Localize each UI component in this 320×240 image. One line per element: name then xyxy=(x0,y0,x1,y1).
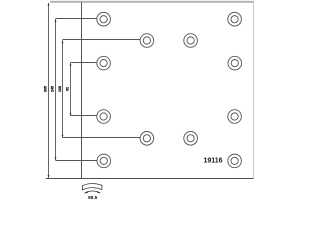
plate top edge (grey) xyxy=(50,1,254,3)
rivet hole H1 (row1 left) xyxy=(97,12,111,26)
extension line row5 (middle) xyxy=(63,137,141,139)
rivet hole H11 (row6 left) xyxy=(97,154,111,168)
extension line row1 xyxy=(56,18,97,20)
plate bottom edge xyxy=(46,178,254,180)
dimension arc arrowhead left xyxy=(84,191,88,193)
extension line row2 (middle) xyxy=(63,39,141,41)
extension line row4 xyxy=(71,115,97,117)
dimension line D3 (row2-row5) xyxy=(62,40,64,138)
rivet hole H3 (row2 mid-left) xyxy=(140,34,154,48)
dimension line D1 (overall height) xyxy=(48,2,50,178)
svg-text:19116: 19116 xyxy=(203,158,222,165)
svg-text:92: 92 xyxy=(65,87,69,91)
svg-text:245: 245 xyxy=(51,86,55,92)
rivet hole H6 (row3 right) xyxy=(228,56,242,70)
rivet hole H9 (row5 mid-left) xyxy=(140,132,154,146)
rivet hole H7 (row4 left) xyxy=(97,110,111,124)
rivet hole H5 (row3 left) xyxy=(97,56,111,70)
section view: lining cross-section band xyxy=(82,184,102,190)
extension line row3 xyxy=(71,62,97,64)
svg-text:305: 305 xyxy=(44,86,48,92)
plate right edge (light grey) xyxy=(253,2,254,179)
rivet hole H10 (row5 mid-right) xyxy=(184,132,198,146)
rivet hole H4 (row2 mid-right) xyxy=(184,34,198,48)
svg-text:168: 168 xyxy=(58,86,62,92)
rivet hole H2 (row1 right) xyxy=(228,12,242,26)
section width dimension arc xyxy=(85,191,101,193)
extension line row6 xyxy=(56,160,97,162)
svg-text:98.5: 98.5 xyxy=(88,195,98,200)
plate left edge xyxy=(81,2,83,178)
rivet hole H12 (row6 right) xyxy=(228,154,242,168)
rivet hole H8 (row4 right) xyxy=(228,110,242,124)
dimension line D2 (row1-row6) xyxy=(55,19,57,161)
dimension line D4 (row3-row4) xyxy=(70,62,72,116)
dimension arc arrowhead right xyxy=(97,191,101,193)
